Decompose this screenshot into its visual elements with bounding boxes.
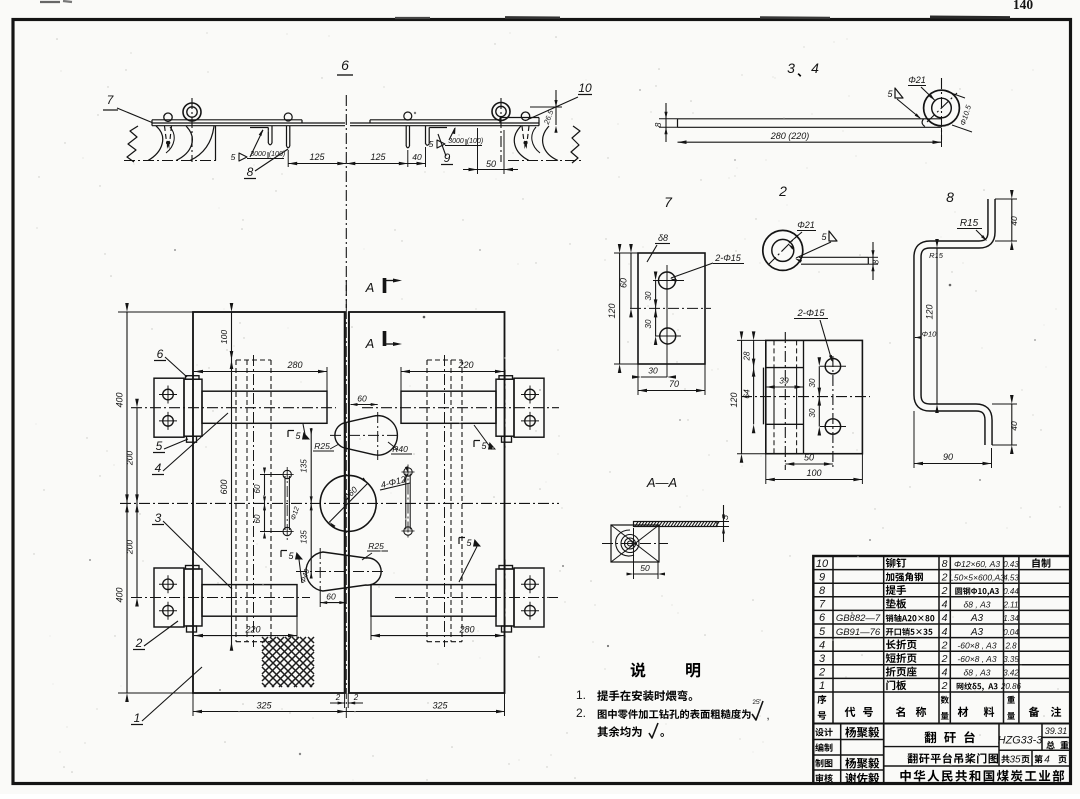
svg-text:120: 120: [729, 392, 739, 407]
svg-text:A—A: A—A: [646, 475, 677, 490]
svg-text:60: 60: [619, 278, 629, 288]
svg-text:1.34: 1.34: [1003, 614, 1019, 623]
svg-text:30: 30: [808, 378, 817, 387]
svg-text:50: 50: [486, 159, 496, 169]
svg-text:A: A: [365, 280, 375, 295]
svg-text:60: 60: [357, 394, 367, 404]
svg-text:GB882—7: GB882—7: [836, 613, 881, 624]
svg-text:,: ,: [766, 710, 769, 722]
svg-text:6: 6: [819, 612, 826, 624]
svg-text:200: 200: [125, 540, 135, 555]
svg-text:8: 8: [872, 259, 881, 264]
svg-text:7: 7: [664, 194, 673, 210]
svg-text:4: 4: [1044, 755, 1050, 766]
svg-text:50: 50: [804, 453, 814, 463]
svg-text:600: 600: [219, 479, 229, 494]
svg-text:Φ21: Φ21: [797, 220, 815, 230]
svg-text:Φ10: Φ10: [922, 330, 937, 339]
svg-text:4: 4: [942, 612, 948, 624]
svg-text:δ8 , A3: δ8 , A3: [964, 668, 991, 678]
svg-text:8: 8: [653, 122, 663, 127]
svg-text:50: 50: [640, 563, 650, 573]
svg-text:8: 8: [946, 189, 954, 205]
svg-text:30: 30: [644, 319, 653, 328]
svg-text:280: 280: [286, 360, 302, 370]
svg-text:4: 4: [942, 599, 948, 611]
svg-text:8: 8: [819, 585, 826, 597]
svg-text:Φ12×60, A3: Φ12×60, A3: [954, 559, 1000, 569]
svg-text:6: 6: [157, 347, 164, 361]
svg-text:39.31: 39.31: [1045, 726, 1068, 736]
svg-text:8: 8: [942, 558, 948, 570]
svg-text:100: 100: [219, 330, 229, 344]
svg-text:2-Φ15: 2-Φ15: [714, 253, 742, 263]
svg-text:4: 4: [942, 626, 948, 638]
svg-text:40: 40: [1009, 216, 1019, 226]
svg-text:1: 1: [819, 680, 825, 692]
svg-text:10: 10: [816, 558, 829, 570]
svg-text:28: 28: [743, 351, 752, 361]
svg-text:2.8: 2.8: [1004, 641, 1017, 650]
svg-text:5: 5: [429, 139, 434, 149]
svg-text:1.: 1.: [576, 688, 586, 702]
svg-text:140: 140: [1013, 0, 1034, 12]
svg-text:220: 220: [457, 360, 473, 370]
svg-text:(100): (100): [467, 138, 483, 145]
svg-text:R40: R40: [392, 444, 408, 454]
svg-text:100: 100: [806, 468, 821, 478]
svg-text:δ8: δ8: [658, 233, 668, 243]
svg-text:30: 30: [648, 366, 658, 376]
svg-text:135: 135: [300, 530, 309, 544]
svg-text:60: 60: [253, 514, 262, 523]
svg-text:120: 120: [925, 304, 935, 319]
svg-text:90: 90: [943, 452, 953, 462]
svg-text:125: 125: [370, 152, 386, 162]
svg-text:2: 2: [941, 639, 948, 651]
svg-text:2: 2: [335, 693, 341, 702]
svg-text:64: 64: [742, 389, 752, 399]
svg-text:70: 70: [669, 379, 679, 389]
svg-text:3.35: 3.35: [1003, 655, 1019, 664]
svg-text:4: 4: [811, 60, 819, 76]
svg-text:2: 2: [941, 653, 948, 665]
svg-text:4: 4: [819, 639, 825, 651]
svg-text:3: 3: [819, 653, 826, 665]
svg-text:-60×8 , A3: -60×8 , A3: [957, 654, 996, 664]
svg-text:10: 10: [578, 81, 592, 95]
svg-text:220: 220: [244, 625, 260, 635]
svg-text:135: 135: [300, 459, 309, 473]
svg-text:280: 280: [458, 625, 474, 635]
svg-text:400: 400: [115, 587, 125, 602]
svg-text:200: 200: [125, 451, 135, 466]
svg-text:4: 4: [155, 461, 162, 475]
svg-text:3: 3: [787, 60, 795, 76]
svg-text:325: 325: [432, 701, 448, 711]
svg-text:39: 39: [779, 376, 789, 386]
svg-text:-60×8 , A3: -60×8 , A3: [957, 640, 996, 650]
svg-text:5: 5: [156, 439, 163, 453]
svg-text:2.: 2.: [576, 706, 586, 720]
svg-text:40: 40: [1009, 421, 1019, 431]
svg-text:30: 30: [644, 291, 653, 300]
svg-text:5: 5: [231, 152, 236, 162]
svg-text:35: 35: [1009, 755, 1021, 766]
svg-text:2.11: 2.11: [1003, 601, 1019, 610]
svg-text:A: A: [365, 336, 375, 351]
svg-text:3.42: 3.42: [1003, 669, 1019, 678]
svg-text:4.53: 4.53: [1003, 573, 1019, 582]
svg-text:3: 3: [155, 511, 162, 525]
svg-text:R15: R15: [929, 251, 944, 260]
svg-text:0.44: 0.44: [1003, 587, 1019, 596]
svg-text:Φ21: Φ21: [908, 75, 926, 85]
svg-text:2: 2: [941, 571, 948, 583]
svg-text:1: 1: [134, 711, 141, 725]
svg-text:2: 2: [941, 585, 948, 597]
svg-text:60: 60: [326, 592, 336, 602]
svg-text:8: 8: [247, 165, 254, 179]
svg-text:25: 25: [752, 699, 760, 706]
svg-text:δ8 , A3: δ8 , A3: [964, 600, 991, 610]
svg-text:20.86: 20.86: [1000, 682, 1022, 691]
svg-text:325: 325: [256, 701, 272, 711]
svg-text:HZG33-3: HZG33-3: [998, 735, 1042, 747]
svg-text:L50×5×600,A3: L50×5×600,A3: [949, 572, 1005, 582]
svg-text:A3: A3: [970, 613, 984, 624]
svg-text:0.43: 0.43: [1003, 560, 1019, 569]
svg-text:R25: R25: [314, 441, 330, 451]
svg-text:125: 125: [309, 152, 325, 162]
svg-text:R15: R15: [960, 218, 979, 229]
svg-text:R25: R25: [368, 541, 384, 551]
svg-text:60: 60: [253, 484, 262, 493]
svg-text:2: 2: [353, 693, 359, 702]
svg-text:2: 2: [941, 680, 948, 692]
svg-text:2-Φ15: 2-Φ15: [797, 308, 826, 319]
svg-text:280 (220): 280 (220): [770, 131, 810, 141]
svg-text:5: 5: [819, 626, 826, 638]
svg-text:GB91—76: GB91—76: [836, 627, 881, 638]
svg-text:3000: 3000: [448, 138, 464, 145]
svg-text:2: 2: [818, 667, 825, 679]
svg-text:0.04: 0.04: [1003, 628, 1019, 637]
svg-text:6: 6: [341, 57, 349, 73]
svg-text:2: 2: [778, 183, 787, 199]
svg-text:400: 400: [115, 392, 125, 407]
svg-text:7: 7: [819, 599, 826, 611]
svg-text:120: 120: [607, 303, 617, 318]
svg-text:A3: A3: [970, 627, 984, 638]
svg-text:4: 4: [942, 667, 948, 679]
svg-text:30: 30: [808, 408, 817, 417]
svg-text:40: 40: [412, 152, 422, 162]
svg-text:2: 2: [135, 636, 143, 650]
svg-text:9: 9: [819, 571, 825, 583]
